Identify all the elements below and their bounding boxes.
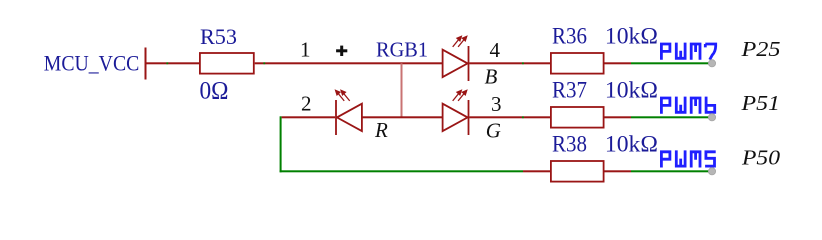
svg-text:R: R <box>374 118 388 142</box>
net wire PWM7 (green) <box>631 62 712 64</box>
wire LED R anode to junction to LED G <box>362 116 443 118</box>
svg-text:2: 2 <box>301 92 312 116</box>
wire to LED R cathode <box>282 116 335 118</box>
net label PWM6 <box>661 97 714 114</box>
LED G emission arrows <box>453 90 467 101</box>
net label PWM5 <box>661 150 715 167</box>
net wire PWM5 (green) <box>631 170 712 172</box>
open pin dot row3 <box>708 168 715 175</box>
pin wire R37 right <box>605 116 632 118</box>
wire LED B to R36 <box>469 62 550 64</box>
svg-text:R53: R53 <box>200 24 237 49</box>
net wire bottom horizontal (green) <box>280 170 523 172</box>
LED R emission arrows <box>336 90 350 101</box>
net stub mark after R53 <box>263 62 265 64</box>
svg-text:MCU_VCC: MCU_VCC <box>44 50 140 75</box>
open pin dot row1 <box>708 60 715 67</box>
svg-text:G: G <box>486 118 501 142</box>
net stub mark row2 <box>522 116 524 118</box>
pin bar of MCU_VCC label <box>145 48 147 80</box>
LED B emission arrows <box>453 36 467 47</box>
LED B (blue LED of RGB1) <box>443 46 469 81</box>
resistor R37 <box>551 107 604 128</box>
svg-text:10kΩ: 10kΩ <box>605 78 658 103</box>
pin wire R38 left <box>523 170 550 172</box>
net wire PWM6 (green) <box>631 116 712 118</box>
svg-text:P50: P50 <box>741 145 781 169</box>
svg-text:R38: R38 <box>552 132 587 157</box>
green vertical net wire (R cathode) <box>280 116 282 172</box>
pin name + <box>336 46 347 56</box>
pin wire R36 right <box>605 62 632 64</box>
svg-text:R37: R37 <box>552 78 587 103</box>
svg-text:10kΩ: 10kΩ <box>605 24 658 49</box>
net label PWM7 <box>661 43 715 60</box>
pin wire R38 right <box>605 170 632 172</box>
open pin dot row2 <box>708 114 715 121</box>
LED R (red LED of RGB1, mirrored) <box>336 100 362 135</box>
svg-text:P25: P25 <box>740 37 780 61</box>
svg-text:10kΩ: 10kΩ <box>605 132 658 157</box>
svg-text:RGB1: RGB1 <box>376 37 428 61</box>
svg-text:1: 1 <box>300 38 311 62</box>
net stub mark left <box>166 62 168 64</box>
net stub mark row1 <box>522 62 524 64</box>
svg-text:4: 4 <box>490 38 501 62</box>
resistor R38 <box>551 161 604 182</box>
resistor R53 <box>200 53 254 74</box>
wire junction vertical (anode bus) <box>401 63 403 117</box>
wire LED G to R37 <box>469 116 550 118</box>
wire MCU_VCC to R53 <box>147 62 200 64</box>
svg-text:R36: R36 <box>552 24 587 49</box>
resistor R36 <box>551 53 604 74</box>
svg-text:3: 3 <box>491 92 502 116</box>
LED G (green LED of RGB1) <box>443 100 469 135</box>
svg-text:P51: P51 <box>740 91 780 115</box>
svg-text:0Ω: 0Ω <box>200 76 229 105</box>
svg-text:B: B <box>485 64 498 88</box>
wire R53 to RGB1 anode node <box>255 62 443 64</box>
